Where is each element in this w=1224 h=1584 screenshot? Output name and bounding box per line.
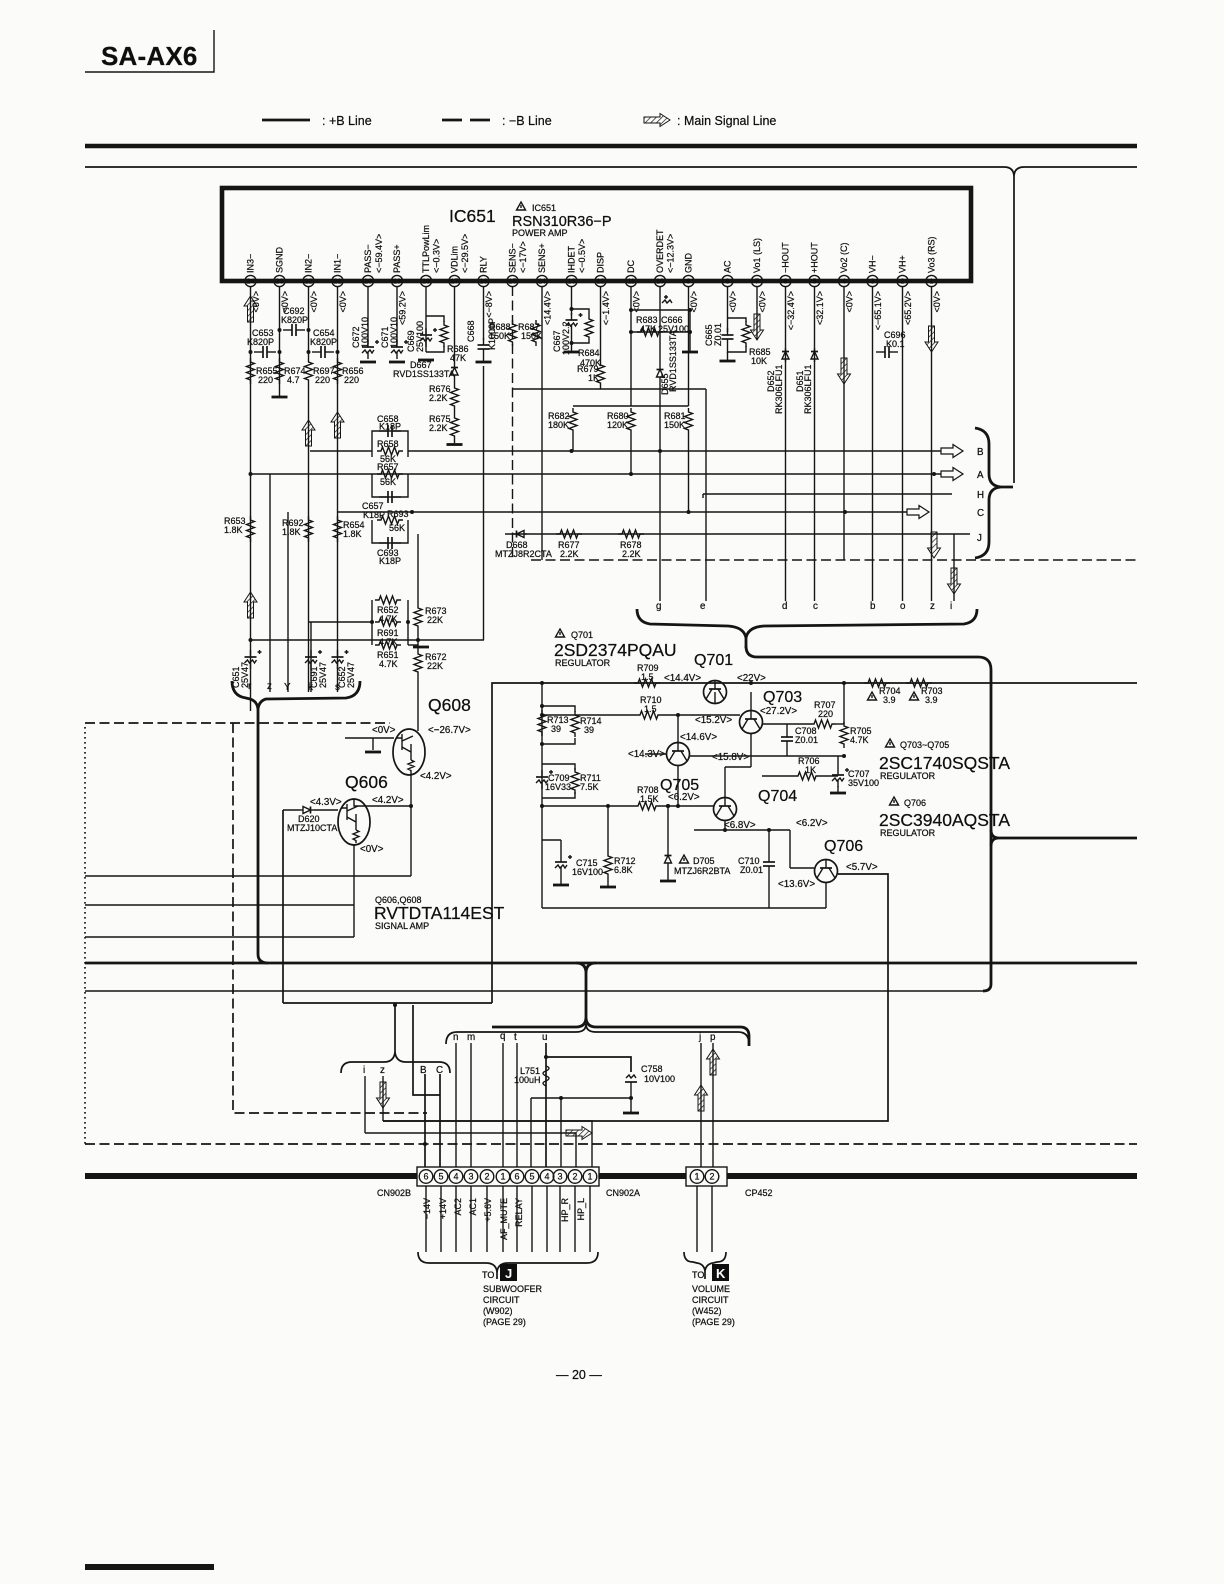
svg-text:RVD1SS133TA: RVD1SS133TA (668, 330, 678, 392)
svg-text:1.5: 1.5 (644, 704, 657, 714)
CN902B pin 4 (449, 1170, 463, 1184)
svg-text:RK306LFU1: RK306LFU1 (803, 364, 813, 414)
wires z Y columns (269, 474, 271, 692)
IC651 box (222, 188, 971, 281)
svg-text:<0V>: <0V> (372, 725, 396, 736)
resistor R687 (518, 320, 542, 346)
resistor R654 (334, 516, 365, 542)
svg-text:IHDET: IHDET (567, 245, 577, 273)
capacitor C668 (466, 286, 497, 362)
wire bottom row 908 (541, 860, 543, 908)
svg-text:16: 16 (480, 279, 488, 286)
svg-text:<0V>: <0V> (932, 291, 942, 313)
svg-text:Q704: Q704 (758, 788, 797, 805)
svg-text:56K: 56K (380, 477, 396, 487)
brace to J (418, 1252, 598, 1272)
svg-text:<−0.3V>: <−0.3V> (432, 239, 442, 273)
svg-text:<0V>: <0V> (338, 291, 348, 313)
svg-text:100V10: 100V10 (360, 317, 370, 348)
capacitor C691 (305, 622, 328, 692)
pin 6 -HOUT (780, 242, 796, 331)
CP452 connector (686, 1167, 727, 1186)
pin 18 TTLPowLim (420, 225, 431, 287)
svg-text:39: 39 (551, 724, 561, 734)
CN902A pin 2 (568, 1170, 582, 1184)
svg-text:MTZJ10CTA: MTZJ10CTA (287, 823, 337, 833)
wire row 806 (542, 805, 634, 807)
signal arrows up x308 x337 (302, 420, 315, 446)
svg-text:R693: R693 (387, 509, 409, 519)
svg-text:+HOUT: +HOUT (810, 242, 820, 273)
CN902B pin 5 (434, 1170, 448, 1184)
svg-text:2.2K: 2.2K (429, 393, 448, 403)
CP452 pin 1 (690, 1170, 704, 1184)
capacitor C653 (247, 328, 276, 358)
svg-text:150K: 150K (489, 331, 510, 341)
transistor Q608 (digital) (393, 695, 471, 775)
svg-text:<15.8V>: <15.8V> (712, 752, 749, 763)
svg-text:5: 5 (529, 1172, 534, 1182)
diode D655 (657, 330, 679, 395)
svg-text:1.8K: 1.8K (282, 527, 301, 537)
capacitor C696 (876, 330, 906, 358)
svg-text:D705: D705 (693, 856, 715, 866)
svg-text:z: z (930, 601, 935, 612)
pin 1 Vo3 (RS) (926, 236, 942, 312)
pin 12 DISP (595, 252, 611, 325)
svg-text:Q608: Q608 (428, 695, 471, 715)
svg-text:CN902A: CN902A (606, 1188, 640, 1198)
resistor R682 (548, 408, 577, 451)
wire pin17 down (454, 286, 456, 364)
wire Q703 links (750, 692, 752, 711)
svg-text:<−1.4V>: <−1.4V> (601, 291, 611, 325)
wire y640 row (251, 639, 485, 641)
wire row y389 (513, 388, 707, 390)
svg-text:K820P: K820P (281, 315, 308, 325)
svg-text:t: t (514, 1032, 517, 1043)
svg-text:VH+: VH+ (898, 255, 908, 273)
connector CN902B/CN902A (417, 1167, 599, 1186)
svg-text:+5.6V: +5.6V (483, 1198, 493, 1222)
svg-text:p: p (710, 1032, 716, 1043)
brace right collecting BAHCJ (975, 428, 1013, 558)
wire pin3 down (872, 286, 874, 601)
legend +B line sample (262, 119, 310, 122)
svg-text:(W452): (W452) (692, 1306, 722, 1316)
svg-text:<27.2V>: <27.2V> (760, 706, 797, 717)
wire row 1133 with arrow (365, 1133, 576, 1170)
CN902B pin 6 (419, 1170, 433, 1184)
wire pin4 down with arrow (843, 286, 845, 560)
svg-text:i: i (363, 1065, 365, 1076)
svg-text:r: r (248, 681, 252, 692)
wires below connector (425, 1186, 427, 1252)
svg-text:b: b (870, 601, 876, 612)
zener D705 (660, 804, 730, 881)
svg-text:s: s (335, 682, 340, 693)
svg-text:Vo2 (C): Vo2 (C) (839, 242, 849, 273)
wire pin21 down (337, 286, 339, 692)
svg-text:220: 220 (818, 709, 833, 719)
svg-text:IN2−: IN2− (304, 254, 314, 273)
capacitor C707 (830, 756, 879, 793)
resistor R712 (600, 804, 636, 887)
svg-text:IN1−: IN1− (333, 254, 343, 273)
svg-text:<14.4V>: <14.4V> (664, 673, 701, 684)
thick wire y1027 left (492, 1026, 576, 1029)
svg-text:C758: C758 (641, 1064, 663, 1074)
svg-text:3.9: 3.9 (925, 695, 938, 705)
svg-text:VH−: VH− (868, 255, 878, 273)
svg-text:(PAGE 29): (PAGE 29) (692, 1317, 735, 1327)
svg-text:Z0.01: Z0.01 (795, 735, 818, 745)
svg-text:2SD2374PQAU: 2SD2374PQAU (554, 640, 677, 660)
svg-text:1.5K: 1.5K (640, 794, 659, 804)
wire Q704 base top (724, 767, 726, 798)
CN902A pin 6 (510, 1170, 524, 1184)
ground under R675 (454, 440, 456, 443)
wires n m q t columns (455, 1043, 457, 1170)
CN902B pin 1 (496, 1170, 510, 1184)
wires below CP452 (696, 1186, 698, 1252)
thick wire y1003 (283, 1002, 492, 1004)
pin 7 Vo1 (LS) (751, 238, 767, 313)
svg-text:100V10: 100V10 (389, 317, 399, 348)
svg-text:2.2K: 2.2K (560, 549, 579, 559)
B C thick verticals (424, 1074, 426, 1170)
svg-text:Vo3 (RS): Vo3 (RS) (927, 236, 937, 273)
svg-text:Z0.01: Z0.01 (713, 323, 723, 346)
pin 22 IN2- (303, 254, 319, 313)
wire pin22 lower (308, 384, 310, 692)
svg-text:<4.2V>: <4.2V> (420, 771, 452, 782)
svg-text:1.8K: 1.8K (224, 525, 243, 535)
svg-text:4: 4 (842, 279, 846, 286)
svg-text:: −B Line: : −B Line (502, 114, 552, 128)
svg-text:TTLPowLim: TTLPowLim (421, 225, 431, 273)
wire row H (703, 493, 952, 495)
svg-text:+14V: +14V (438, 1198, 448, 1219)
svg-text:DISP: DISP (596, 252, 606, 273)
second bus line (85, 166, 1004, 168)
resistor R713 R714 pair (538, 704, 602, 746)
wire row y406 (573, 405, 689, 407)
svg-text:OVERDET: OVERDET (655, 229, 665, 273)
wire pin10 down (659, 286, 661, 366)
Q606 collector down (353, 845, 355, 937)
resistor R653 (224, 516, 255, 542)
Q608 base wire + ground (345, 738, 394, 750)
svg-text:<14.6V>: <14.6V> (680, 732, 717, 743)
wire row 1098 (531, 1097, 631, 1099)
svg-text:H: H (977, 490, 984, 501)
svg-text:<0V>: <0V> (845, 291, 855, 313)
svg-text:K18P: K18P (379, 422, 401, 432)
resistor R684 loop (572, 309, 602, 368)
svg-text:1.8K: 1.8K (343, 529, 362, 539)
svg-text:<6.2V>: <6.2V> (796, 818, 828, 829)
legend main signal arrow (644, 114, 670, 127)
wire i column (364, 1076, 366, 1133)
svg-text:6: 6 (784, 279, 788, 286)
svg-text:B: B (420, 1065, 427, 1076)
svg-text:<0V>: <0V> (309, 291, 319, 313)
svg-text:22: 22 (305, 279, 313, 286)
svg-text:RELAY: RELAY (514, 1198, 524, 1227)
svg-text:RVTDTA114EST: RVTDTA114EST (374, 903, 505, 923)
Q608 emitter down (410, 773, 412, 876)
pin 14 SENS+ (536, 243, 552, 325)
signal arrows down near z i (928, 532, 941, 558)
resistor R704 (864, 679, 901, 705)
resistor R679 on pin12 wire (577, 361, 605, 387)
resistor R680 (607, 408, 635, 474)
svg-text:e: e (700, 601, 706, 612)
svg-text:6: 6 (514, 1172, 519, 1182)
brace over i z (341, 1052, 450, 1073)
diode D667 (393, 360, 458, 379)
svg-text:C668: C668 (466, 320, 476, 342)
svg-text:K820P: K820P (247, 337, 274, 347)
svg-text:<−32.4V>: <−32.4V> (786, 291, 796, 330)
wire long y963 (85, 962, 1137, 965)
pin 2 VH+ (897, 255, 913, 325)
svg-text:o: o (900, 601, 906, 612)
svg-text:z: z (380, 1065, 385, 1076)
resistor R709 (634, 663, 660, 687)
transistor Q704 (714, 788, 798, 821)
wire pin16 column down (483, 366, 485, 640)
capacitor C665 + resistor R685 (704, 286, 771, 366)
svg-text:SENS+: SENS+ (537, 243, 547, 273)
svg-text:Y: Y (284, 682, 291, 693)
capacitor C672 (351, 286, 379, 362)
svg-text:4.7K: 4.7K (379, 659, 398, 669)
svg-text:7: 7 (755, 279, 759, 286)
svg-text:4.7K: 4.7K (850, 735, 869, 745)
svg-text:1: 1 (587, 1172, 592, 1182)
warning Q706 (890, 797, 899, 805)
svg-text:RLY: RLY (479, 256, 489, 273)
svg-text:2.2K: 2.2K (429, 423, 448, 433)
capacitor C654 (310, 328, 337, 358)
svg-text:A: A (977, 470, 984, 481)
junction dots top caps (278, 328, 282, 332)
left rail x542 (541, 683, 543, 798)
wire pin5 down / diode D651 (814, 286, 816, 601)
bundle split x586 (576, 963, 596, 1027)
brace under gedcbozi (637, 609, 746, 648)
svg-text:SENS−: SENS− (508, 243, 518, 273)
wire pin11 down (630, 286, 632, 406)
svg-text:47K: 47K (450, 353, 466, 363)
resistor R672 (414, 650, 447, 676)
transistor Q705 (660, 743, 699, 795)
pin 3 VH- (867, 255, 883, 330)
svg-text:CN902B: CN902B (377, 1188, 411, 1198)
svg-text:100V2.2: 100V2.2 (561, 321, 571, 355)
thick tee to right y838 (991, 830, 1137, 846)
svg-text:2: 2 (484, 1172, 489, 1182)
title box line (85, 30, 214, 72)
svg-text:6.8K: 6.8K (614, 865, 633, 875)
wire row A (251, 473, 959, 475)
legend -B line sample (442, 119, 462, 122)
svg-text:21: 21 (334, 279, 342, 286)
svg-text:z: z (267, 681, 272, 692)
wires e i columns (702, 494, 704, 498)
wire y937 (85, 936, 354, 938)
pin 24 IN3- (245, 254, 261, 313)
svg-text:22K: 22K (427, 661, 443, 671)
svg-text:J: J (977, 533, 982, 544)
resistor R707 (810, 700, 836, 728)
svg-text:1.5: 1.5 (641, 672, 654, 682)
resistor R697 (305, 358, 335, 385)
svg-text:u: u (542, 1032, 547, 1043)
svg-text:SUBWOOFER: SUBWOOFER (483, 1284, 543, 1294)
svg-text:25V47: 25V47 (346, 662, 356, 688)
svg-text:24: 24 (247, 279, 255, 286)
CN902B pin 2 (480, 1170, 494, 1184)
Q606 base wire (314, 809, 338, 811)
resistor R675 (429, 410, 459, 440)
regulator frame wire top y683 (492, 683, 1137, 1003)
wire x418 (417, 534, 419, 604)
svg-text:IC651: IC651 (532, 203, 556, 213)
svg-text:AC1: AC1 (468, 1198, 478, 1216)
svg-text:14: 14 (538, 279, 546, 286)
pin 21 IN1- (332, 254, 348, 313)
svg-text:R657: R657 (377, 462, 399, 472)
resistor R676 (429, 378, 459, 410)
wire Q706 emitter path (383, 874, 888, 1121)
CN902A pin 1 (583, 1170, 597, 1184)
svg-text:<14.4V>: <14.4V> (543, 291, 553, 325)
thin long wire y991 (85, 990, 985, 992)
svg-text:PASS−: PASS− (363, 244, 373, 273)
svg-text:25V100: 25V100 (415, 321, 425, 352)
svg-text:5: 5 (813, 279, 817, 286)
dashed -B bottom rail (85, 1143, 1137, 1145)
svg-text:MTZJ8R2CTA: MTZJ8R2CTA (495, 549, 552, 559)
wire u to C758 (546, 1057, 631, 1072)
svg-text:SGND: SGND (275, 246, 285, 273)
svg-text:12: 12 (597, 279, 605, 286)
capacitor C651 (231, 650, 262, 688)
capacitor C692 (281, 306, 308, 336)
svg-text:5: 5 (438, 1172, 443, 1182)
wire pin9 down (688, 286, 690, 406)
pin 9 GND (683, 253, 699, 313)
svg-text:10V100: 10V100 (644, 1074, 675, 1084)
CP452 pin 2 (705, 1170, 719, 1184)
diode D620 (287, 807, 337, 834)
svg-text:— 20 —: — 20 — (556, 1368, 602, 1382)
ground right of ladder (408, 644, 418, 646)
svg-text:−14V: −14V (422, 1198, 432, 1219)
svg-text:VOLUME: VOLUME (692, 1284, 730, 1294)
resistor R683 / capacitor C666 loop (629, 295, 698, 352)
wire row 724 (763, 723, 810, 725)
svg-text:Q706: Q706 (904, 798, 926, 808)
stem up from iz brace (394, 1005, 396, 1052)
svg-text:35V100: 35V100 (848, 778, 879, 788)
wire y876 (85, 875, 411, 877)
wire row 830 (694, 829, 790, 831)
svg-text:2: 2 (572, 1172, 577, 1182)
wire pin14 down (541, 286, 543, 560)
resistor R706 (794, 756, 820, 780)
junction dots mid band (570, 449, 574, 453)
svg-text:HP_L: HP_L (576, 1198, 586, 1221)
wire Q704 emitter down to row 830 (724, 820, 726, 830)
svg-text:2: 2 (709, 1172, 714, 1182)
svg-text:4.7: 4.7 (287, 375, 300, 385)
svg-text:RVD1SS133TA: RVD1SS133TA (393, 369, 455, 379)
capacitor C708 (781, 724, 818, 756)
svg-text:<4.2V>: <4.2V> (372, 795, 404, 806)
svg-text:Q703: Q703 (763, 689, 802, 706)
svg-text:150K: 150K (664, 420, 685, 430)
signal arrow up pin24 (244, 296, 257, 322)
svg-text:3.9: 3.9 (883, 695, 896, 705)
svg-text:: Main Signal Line: : Main Signal Line (677, 114, 776, 128)
CN902B pin 3 (464, 1170, 478, 1184)
svg-text:<0V>: <0V> (758, 291, 768, 313)
resistor R656 (334, 358, 364, 385)
resistor R708 (634, 785, 660, 810)
svg-text:: +B Line: : +B Line (322, 114, 372, 128)
svg-text:<−0.5V>: <−0.5V> (577, 239, 587, 273)
svg-text:16V33: 16V33 (545, 782, 571, 792)
dashed -B row (531, 559, 1137, 561)
warning Q703-Q705 (886, 739, 895, 747)
inductor L751 (514, 1066, 549, 1086)
wire pin23 to ground (279, 286, 281, 396)
svg-text:220: 220 (344, 375, 359, 385)
resistor R710 (636, 695, 662, 719)
wire row 776 (762, 775, 794, 777)
capacitor C671 (380, 286, 408, 362)
svg-text:39: 39 (584, 725, 594, 735)
svg-text:<32.1V>: <32.1V> (815, 291, 825, 325)
svg-text:1K: 1K (588, 373, 599, 383)
svg-text:g: g (656, 601, 661, 612)
capacitor C710 (738, 830, 775, 908)
ladder R652/R691/R651 (370, 596, 410, 669)
transistor Q706 (815, 838, 864, 883)
wire row 1120 (383, 1121, 592, 1170)
svg-text:<6.2V>: <6.2V> (668, 792, 700, 803)
wire pin24 down (250, 286, 252, 711)
wire z column + arrow (382, 1076, 384, 1121)
svg-text:4: 4 (453, 1172, 458, 1182)
CN902A pin 3 (553, 1170, 567, 1184)
svg-text:IC651: IC651 (449, 206, 496, 226)
svg-text:DC: DC (626, 260, 636, 273)
svg-text:<13.6V>: <13.6V> (778, 879, 815, 890)
brace under rzYks (232, 681, 258, 709)
resistor R655 (247, 358, 278, 385)
wire row B (408, 450, 958, 452)
svg-text:AC: AC (723, 260, 733, 273)
svg-text:Vo1 (LS): Vo1 (LS) (752, 238, 762, 273)
svg-text:C: C (977, 508, 984, 519)
svg-text:K820P: K820P (310, 337, 337, 347)
resistor R688 (489, 320, 517, 346)
